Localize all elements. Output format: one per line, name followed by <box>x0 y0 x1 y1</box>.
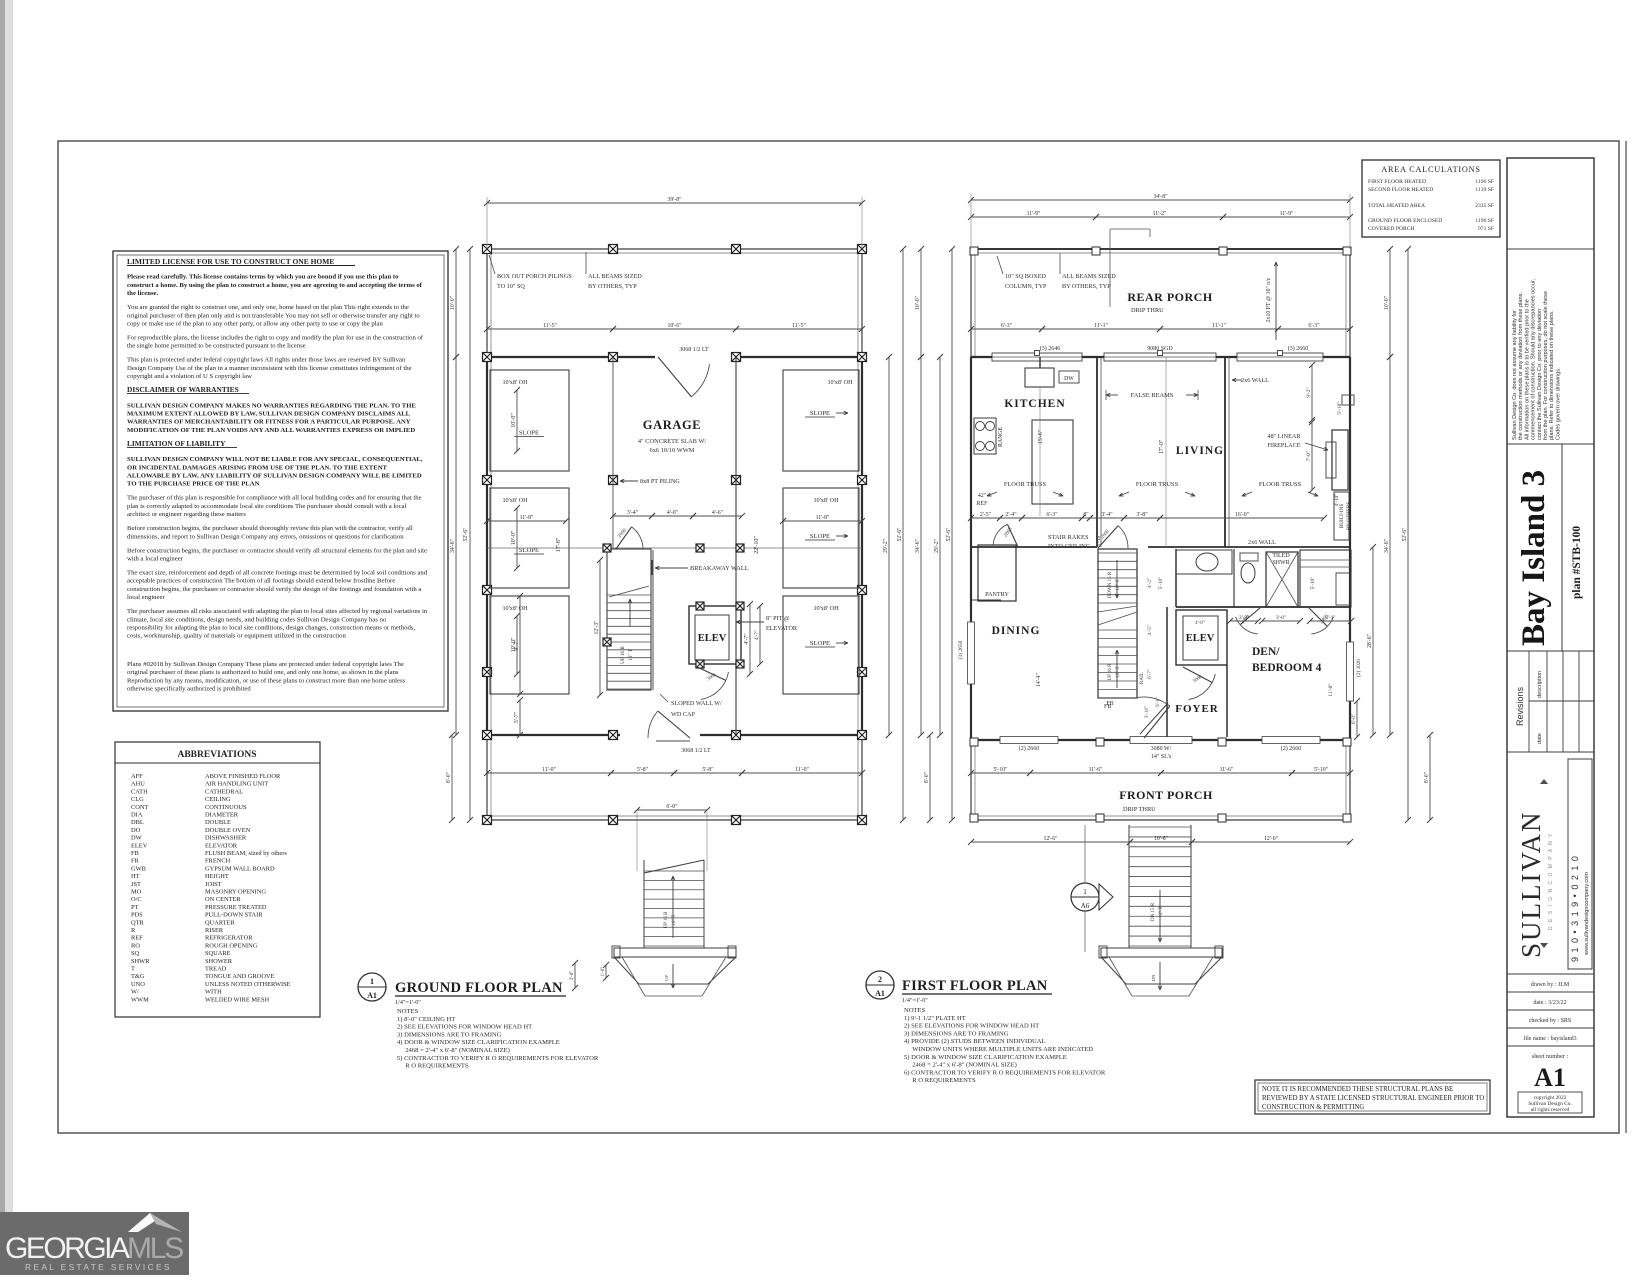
svg-text:(2) 3026: (2) 3026 <box>1355 659 1362 677</box>
svg-text:SQUARE: SQUARE <box>205 950 231 957</box>
svg-text:Please read carefully. This l: Please read carefully. This license cont… <box>127 274 399 281</box>
svg-text:1139 SF: 1139 SF <box>1475 187 1494 193</box>
svg-text:4'-10": 4'-10" <box>1334 494 1340 507</box>
svg-text:3068 1/2 LT: 3068 1/2 LT <box>681 748 711 754</box>
svg-text:10'x8' OH: 10'x8' OH <box>827 379 853 386</box>
svg-text:MAXIMUM EXTENT ALLOWED BY LAW,: MAXIMUM EXTENT ALLOWED BY LAW, SULLIVAN … <box>127 411 411 418</box>
svg-text:8": 8" <box>1083 512 1088 518</box>
svg-text:6'-7": 6'-7" <box>1147 669 1153 679</box>
svg-text:Revisions: Revisions <box>1515 686 1525 726</box>
svg-text:SQ: SQ <box>131 950 140 957</box>
svg-text:Reproduction by any means, mod: Reproduction by any means, modification,… <box>127 677 406 684</box>
svg-text:2468 = 2'-4" x 6'-8" (NOMINAL: 2468 = 2'-4" x 6'-8" (NOMINAL SIZE) <box>397 1047 510 1054</box>
svg-text:AREA CALCULATIONS: AREA CALCULATIONS <box>1381 165 1480 174</box>
svg-text:CEILING: CEILING <box>205 796 231 803</box>
svg-text:original purchaser of then pla: original purchaser of then plan only and… <box>127 312 420 319</box>
svg-text:10'x8' OH: 10'x8' OH <box>502 497 528 504</box>
svg-text:GARAGE: GARAGE <box>643 418 701 432</box>
svg-text:WELDED WIRE MESH: WELDED WIRE MESH <box>205 996 270 1003</box>
svg-text:WD CAP: WD CAP <box>671 711 695 718</box>
svg-text:3068 1/2 LT: 3068 1/2 LT <box>679 347 709 353</box>
svg-text:responsibility for adapting th: responsibility for adapting the plan to … <box>127 625 415 632</box>
svg-text:ABOVE FINISHED FLOOR: ABOVE FINISHED FLOOR <box>205 773 281 780</box>
svg-text:3'-8": 3'-8" <box>1136 512 1147 518</box>
svg-text:2: 2 <box>878 975 882 984</box>
svg-text:FLUSH BEAM, sized by others: FLUSH BEAM, sized by others <box>205 850 287 857</box>
svg-text:11'-6": 11'-6" <box>1220 767 1234 773</box>
svg-text:All information on these plans: All information on these plans is to be … <box>1524 299 1530 440</box>
svg-text:CONSTRUCTION & PERMITTING: CONSTRUCTION & PERMITTING <box>1262 1104 1364 1111</box>
svg-text:11'-0": 11'-0" <box>795 767 809 773</box>
svg-text:34'-8": 34'-8" <box>1153 194 1167 200</box>
svg-text:17'-0": 17'-0" <box>1159 439 1165 454</box>
svg-text:8x8 PT PILING: 8x8 PT PILING <box>640 478 680 485</box>
svg-text:8'-0": 8'-0" <box>1424 772 1430 783</box>
svg-text:date: date <box>1537 733 1543 744</box>
svg-text:CONT: CONT <box>131 804 148 811</box>
svg-text:CATHEDRAL: CATHEDRAL <box>205 788 243 795</box>
svg-text:10'x8' OH: 10'x8' OH <box>813 497 839 504</box>
svg-text:12'-3": 12'-3" <box>594 620 600 634</box>
svg-text:GYPSUM WALL BOARD: GYPSUM WALL BOARD <box>205 865 275 872</box>
svg-text:(3) 2660: (3) 2660 <box>1288 345 1309 352</box>
svg-text:10" T: 10" T <box>1116 579 1121 590</box>
svg-text:GWB: GWB <box>131 865 146 872</box>
svg-text:10'-0": 10'-0" <box>450 296 456 310</box>
svg-text:DW: DW <box>1064 376 1074 382</box>
svg-text:RO: RO <box>131 942 140 949</box>
svg-text:SULLIVAN DESIGN COMPANY WILL N: SULLIVAN DESIGN COMPANY WILL NOT BE LIAB… <box>127 456 423 463</box>
svg-text:SECOND FLOOR HEATED: SECOND FLOOR HEATED <box>1368 187 1433 193</box>
svg-text:15'-6": 15'-6" <box>1038 430 1044 444</box>
svg-text:4'-6": 4'-6" <box>712 510 723 516</box>
svg-text:HEIGHT: HEIGHT <box>205 873 229 880</box>
svg-text:Before construction begins, th: Before construction begins, the purchase… <box>127 525 413 532</box>
svg-text:WINDOW UNITS WHERE MULTIPLE UN: WINDOW UNITS WHERE MULTIPLE UNITS ARE IN… <box>904 1046 1093 1053</box>
svg-text:RAIL: RAIL <box>1139 672 1145 684</box>
svg-text:1: 1 <box>1083 888 1087 896</box>
svg-text:11'-6": 11'-6" <box>1089 767 1103 773</box>
svg-text:REAL ESTATE SERVICES: REAL ESTATE SERVICES <box>25 1262 172 1272</box>
svg-text:R O REQUIREMENTS: R O REQUIREMENTS <box>397 1063 469 1070</box>
svg-text:1) 8'-0" CEILING HT: 1) 8'-0" CEILING HT <box>397 1016 455 1023</box>
svg-text:Sullivan Design Co. does not a: Sullivan Design Co. does not assume any … <box>1512 310 1518 440</box>
svg-text:11'-1": 11'-1" <box>1094 323 1108 329</box>
svg-text:52'-6": 52'-6" <box>1402 527 1408 541</box>
svg-text:2468 = 2'-4" x 6'-8" (NOMINAL: 2468 = 2'-4" x 6'-8" (NOMINAL SIZE) <box>904 1062 1017 1069</box>
svg-text:STAIR RAKES: STAIR RAKES <box>1048 534 1089 541</box>
svg-text:WITH: WITH <box>205 989 222 996</box>
svg-text:MLS: MLS <box>127 1232 183 1265</box>
svg-text:9080 SGD: 9080 SGD <box>1147 346 1173 352</box>
svg-text:11'-8": 11'-8" <box>520 515 534 521</box>
svg-text:6'-0": 6'-0" <box>1351 714 1357 724</box>
svg-text:28'-6": 28'-6" <box>1367 634 1373 648</box>
svg-text:local engineer: local engineer <box>127 594 165 601</box>
svg-text:copy or make use of the plan t: copy or make use of the plan to any othe… <box>127 321 383 328</box>
svg-text:10" T: 10" T <box>628 648 634 661</box>
svg-text:29'-2": 29'-2" <box>934 539 940 553</box>
svg-text:LIMITED LICENSE FOR USE TO CON: LIMITED LICENSE FOR USE TO CONSTRUCT ONE… <box>127 257 334 266</box>
svg-text:the construction methods or an: the construction methods or any deviatio… <box>1518 292 1524 440</box>
svg-text:WWM: WWM <box>131 996 149 1003</box>
svg-text:16'-0": 16'-0" <box>1235 512 1249 518</box>
svg-text:DRIP THRU: DRIP THRU <box>1131 307 1164 314</box>
svg-text:plans. Refer to dimensions ind: plans. Refer to dimensions indicated on … <box>1549 310 1555 440</box>
svg-text:description: description <box>1537 671 1543 698</box>
svg-text:GROUND FLOOR PLAN: GROUND FLOOR PLAN <box>395 980 563 996</box>
svg-text:PANTRY: PANTRY <box>985 591 1009 598</box>
svg-text:FALSE BEAMS: FALSE BEAMS <box>1131 392 1174 399</box>
svg-text:O/C: O/C <box>131 896 142 903</box>
svg-text:8'-0": 8'-0" <box>446 772 452 783</box>
svg-text:11'-2": 11'-2" <box>1153 211 1167 217</box>
svg-text:FR: FR <box>131 858 140 865</box>
svg-text:2'-4": 2'-4" <box>1005 512 1016 518</box>
svg-text:NOTE IT IS RECOMMENDED THESE: NOTE IT IS RECOMMENDED THESE STRUCTURAL … <box>1262 1086 1453 1093</box>
svg-text:9'-2": 9'-2" <box>1306 387 1312 397</box>
svg-text:17'-8": 17'-8" <box>556 537 562 552</box>
svg-text:5'-8": 5'-8" <box>637 767 648 773</box>
svg-text:You are granted the right to c: You are granted the right to construct o… <box>127 304 409 311</box>
svg-text:MO: MO <box>131 889 142 896</box>
svg-text:6'-0": 6'-0" <box>666 804 677 810</box>
svg-text:3'-3": 3'-3" <box>1239 615 1249 621</box>
svg-text:BEDROOM 4: BEDROOM 4 <box>1252 662 1322 674</box>
svg-text:SLOPE: SLOPE <box>810 410 830 417</box>
svg-text:SHWR: SHWR <box>131 958 150 965</box>
svg-text:1196 SF: 1196 SF <box>1475 179 1494 185</box>
svg-text:DOUBLE: DOUBLE <box>205 819 231 826</box>
svg-text:34'-6": 34'-6" <box>450 539 456 553</box>
svg-text:3) DIMENSIONS ARE TO FRAMING: 3) DIMENSIONS ARE TO FRAMING <box>904 1030 1009 1037</box>
svg-text:8'-0": 8'-0" <box>924 772 930 783</box>
svg-text:39'-8": 39'-8" <box>667 197 681 203</box>
svg-text:D E S I G N C O M P A N Y: D E S I G N C O M P A N Y <box>1548 832 1554 930</box>
svg-text:BREAKAWAY WALL: BREAKAWAY WALL <box>690 565 749 572</box>
svg-text:11'-9": 11'-9" <box>1280 211 1294 217</box>
svg-text:9'-7": 9'-7" <box>514 639 520 650</box>
svg-text:PULL-DOWN STAIR: PULL-DOWN STAIR <box>205 912 263 919</box>
svg-text:JOIST: JOIST <box>205 881 222 888</box>
svg-text:TONGUE AND GROOVE: TONGUE AND GROOVE <box>205 973 275 980</box>
svg-text:DISCLAIMER OF WARRANTIES: DISCLAIMER OF WARRANTIES <box>127 385 239 394</box>
svg-text:3'-0": 3'-0" <box>1276 615 1286 621</box>
svg-text:ALL BEAMS SIZED: ALL BEAMS SIZED <box>1062 273 1116 280</box>
svg-text:971 SF: 971 SF <box>1478 226 1494 232</box>
svg-text:SHWR: SHWR <box>1272 560 1289 566</box>
svg-text:plan #STB-100: plan #STB-100 <box>1571 526 1583 599</box>
svg-text:NOTES: NOTES <box>904 1007 926 1014</box>
svg-text:5'-1": 5'-1" <box>1326 615 1336 621</box>
svg-text:SULLIVAN: SULLIVAN <box>1516 810 1546 958</box>
svg-text:FRONT PORCH: FRONT PORCH <box>1119 788 1213 802</box>
svg-text:ROUGH OPENING: ROUGH OPENING <box>205 942 258 949</box>
svg-text:Plans #02018 by Sullivan Desi: Plans #02018 by Sullivan Design Company … <box>127 661 404 668</box>
svg-text:FIRST FLOOR HEATED: FIRST FLOOR HEATED <box>1368 179 1426 185</box>
svg-text:ELEVATOR: ELEVATOR <box>205 842 238 849</box>
svg-text:10'-0": 10'-0" <box>1384 296 1390 310</box>
svg-text:1/4"=1'-0": 1/4"=1'-0" <box>395 999 421 1006</box>
svg-text:10'-0": 10'-0" <box>915 296 921 310</box>
svg-text:2'-5": 2'-5" <box>980 512 991 518</box>
svg-text:FOYER: FOYER <box>1175 703 1219 715</box>
svg-text:REAR PORCH: REAR PORCH <box>1127 290 1212 304</box>
svg-text:4) PROVIDE (2) STUDS BETWEEN I: 4) PROVIDE (2) STUDS BETWEEN INDIVIDUAL <box>904 1038 1046 1045</box>
svg-text:date : 3/23/22: date : 3/23/22 <box>1534 1000 1567 1006</box>
svg-text:R: R <box>131 927 136 934</box>
svg-text:Design Company Use of the pl: Design Company Use of the plan in a mann… <box>127 365 412 372</box>
svg-text:MASONRY OPENING: MASONRY OPENING <box>205 889 266 896</box>
svg-text:10" T: 10" T <box>672 914 677 925</box>
svg-text:11'-9": 11'-9" <box>1027 211 1041 217</box>
svg-text:FRENCH: FRENCH <box>205 858 231 865</box>
svg-text:costs, workmanship, quality of: costs, workmanship, quality of materials… <box>127 633 346 640</box>
svg-text:6) CONTRACTOR TO VERIFY R O R: 6) CONTRACTOR TO VERIFY R O REQUIREMENTS… <box>904 1069 1106 1076</box>
svg-text:NOTES: NOTES <box>397 1008 419 1015</box>
svg-text:UNO: UNO <box>131 981 145 988</box>
svg-text:architect or engineer regardin: architect or engineer regarding these ma… <box>127 511 246 518</box>
svg-text:1196 SF: 1196 SF <box>1475 218 1494 224</box>
svg-text:6'-3": 6'-3" <box>1308 323 1319 329</box>
svg-text:7'-0": 7'-0" <box>1306 451 1312 461</box>
svg-text:(2) 2660: (2) 2660 <box>1281 745 1302 752</box>
svg-text:AIR HANDLING UNIT: AIR HANDLING UNIT <box>205 781 268 788</box>
svg-text:10'-6": 10'-6" <box>667 323 681 329</box>
svg-text:3'-4": 3'-4" <box>627 510 638 516</box>
svg-text:SLOPE: SLOPE <box>519 430 539 437</box>
svg-text:1'-0": 1'-0" <box>601 967 606 977</box>
svg-text:5'-10": 5'-10" <box>993 767 1007 773</box>
svg-text:BUILT-INS: BUILT-INS <box>1339 504 1345 529</box>
svg-text:11'-8": 11'-8" <box>816 515 830 521</box>
svg-text:ELEV: ELEV <box>131 842 148 849</box>
svg-text:10'-8": 10'-8" <box>1154 836 1168 842</box>
svg-text:TO 10" SQ: TO 10" SQ <box>497 283 525 290</box>
svg-text:29'-2": 29'-2" <box>883 539 889 553</box>
svg-text:from the plan. For constructio: from the plan. For construction purposes… <box>1543 291 1549 440</box>
svg-text:WARRANTIES OF MERCHANTABILITY: WARRANTIES OF MERCHANTABILITY OR FITNESS… <box>127 419 411 426</box>
svg-text:sheet number :: sheet number : <box>1532 1053 1569 1060</box>
svg-text:8" PIT @: 8" PIT @ <box>766 615 790 622</box>
svg-text:SLOPED WALL W/: SLOPED WALL W/ <box>671 700 722 707</box>
svg-text:11'-8": 11'-8" <box>1328 683 1334 696</box>
svg-text:2) SEE ELEVATIONS FOR WINDOW H: 2) SEE ELEVATIONS FOR WINDOW HEAD HT <box>904 1023 1039 1030</box>
svg-text:DN: DN <box>1151 974 1156 981</box>
svg-text:1: 1 <box>370 977 374 986</box>
svg-text:6'-3": 6'-3" <box>1001 323 1012 329</box>
svg-text:4'-7": 4'-7" <box>754 630 760 640</box>
svg-text:REVIEWED BY A STATE LICENSED S: REVIEWED BY A STATE LICENSED STRUCTURAL … <box>1262 1095 1484 1102</box>
svg-text:BY OTHERS: BY OTHERS <box>1346 502 1352 531</box>
svg-text:11" T: 11" T <box>1159 906 1164 917</box>
svg-text:drawn by : JLM: drawn by : JLM <box>1531 982 1570 988</box>
svg-text:3'-10": 3'-10" <box>1145 706 1150 718</box>
svg-text:4'-7": 4'-7" <box>744 633 750 644</box>
svg-text:dimensions, and report to Sull: dimensions, and report to Sullivan Desig… <box>127 533 404 540</box>
svg-text:FB: FB <box>131 850 139 857</box>
svg-text:LIVING: LIVING <box>1176 445 1224 457</box>
svg-text:6x6 10/10 WWM: 6x6 10/10 WWM <box>650 447 695 454</box>
svg-text:11'-5": 11'-5" <box>792 323 806 329</box>
svg-text:52'-6": 52'-6" <box>897 527 903 541</box>
svg-text:DW: DW <box>131 835 143 842</box>
svg-text:2335 SF: 2335 SF <box>1475 203 1494 209</box>
svg-text:42": 42" <box>978 493 986 499</box>
svg-text:GROUND FLOOR ENCLOSED: GROUND FLOOR ENCLOSED <box>1368 218 1442 224</box>
svg-text:DOWN 15 R: DOWN 15 R <box>1108 571 1113 598</box>
svg-text:contact the Sullivan Design Co: contact the Sullivan Design Co. prior to… <box>1537 309 1543 440</box>
svg-text:34'-6": 34'-6" <box>915 539 921 553</box>
svg-text:PT: PT <box>131 904 139 911</box>
svg-text:UNLESS NOTED OTHERWISE: UNLESS NOTED OTHERWISE <box>205 981 291 988</box>
svg-text:34'-6": 34'-6" <box>1384 539 1390 553</box>
svg-text:AHU: AHU <box>131 781 145 788</box>
svg-text:COLUMN, TYP: COLUMN, TYP <box>1005 283 1047 290</box>
svg-text:3) DIMENSIONS ARE TO FRAMING: 3) DIMENSIONS ARE TO FRAMING <box>397 1031 502 1038</box>
svg-text:TO THE PURCHASE PRICE OF THE P: TO THE PURCHASE PRICE OF THE PLAN <box>127 481 260 488</box>
svg-text:10" SQ BOXED: 10" SQ BOXED <box>1005 273 1047 280</box>
svg-text:R O REQUIREMENTS: R O REQUIREMENTS <box>904 1077 976 1084</box>
svg-text:2) SEE ELEVATIONS FOR WINDOW H: 2) SEE ELEVATIONS FOR WINDOW HEAD HT <box>397 1024 532 1031</box>
svg-text:2x6 WALL: 2x6 WALL <box>1241 377 1269 384</box>
svg-text:REF: REF <box>131 935 143 942</box>
svg-text:4'-0": 4'-0" <box>667 510 678 516</box>
svg-text:FLOOR TRUSS: FLOOR TRUSS <box>1259 481 1302 488</box>
svg-text:A1: A1 <box>1534 1063 1566 1092</box>
svg-text:SULLIVAN DESIGN COMPANY MAKES: SULLIVAN DESIGN COMPANY MAKES NO WARRANT… <box>127 402 416 409</box>
svg-text:copyright and a violation of U: copyright and a violation of U S copyrig… <box>127 373 252 380</box>
svg-text:4'-0": 4'-0" <box>1195 620 1205 626</box>
svg-text:UP 16 R: UP 16 R <box>1108 663 1113 681</box>
svg-text:BY OTHERS, TYP: BY OTHERS, TYP <box>588 283 637 290</box>
svg-text:UP 16 R: UP 16 R <box>664 911 669 929</box>
svg-text:SLOPE: SLOPE <box>810 533 830 540</box>
svg-text:FLOOR TRUSS: FLOOR TRUSS <box>1136 481 1179 488</box>
svg-text:4) DOOR & WINDOW SIZE CLARIFIC: 4) DOOR & WINDOW SIZE CLARIFICATION EXAM… <box>397 1039 560 1046</box>
svg-text:HT: HT <box>131 873 140 880</box>
svg-text:plan is correctly adapted to a: plan is correctly adapted to accommodate… <box>127 503 407 510</box>
svg-text:INTO CEILING: INTO CEILING <box>1048 543 1091 550</box>
svg-text:22'-10": 22'-10" <box>754 536 760 554</box>
svg-text:10" T: 10" T <box>1116 666 1121 677</box>
svg-text:5'-10": 5'-10" <box>1314 767 1328 773</box>
svg-text:11'-1": 11'-1" <box>1212 323 1226 329</box>
svg-text:construct a home. By using the: construct a home. By using the plan to c… <box>127 282 423 289</box>
svg-text:The purchaser of this plan is: The purchaser of this plan is responsibl… <box>127 495 422 502</box>
svg-text:5) DOOR & WINDOW SIZE CLARIFIC: 5) DOOR & WINDOW SIZE CLARIFICATION EXAM… <box>904 1054 1067 1061</box>
svg-text:BY OTHERS, TYP: BY OTHERS, TYP <box>1062 283 1111 290</box>
svg-text:14'-4": 14'-4" <box>1036 673 1042 687</box>
svg-text:TREAD: TREAD <box>205 966 227 973</box>
svg-text:DO: DO <box>131 827 141 834</box>
svg-text:ALLOWABLE BY LAW, ANY LIABILIT: ALLOWABLE BY LAW, ANY LIABILITY OF SULLI… <box>127 473 422 480</box>
svg-text:48" LINEAR: 48" LINEAR <box>1268 433 1302 440</box>
svg-text:52'-6": 52'-6" <box>946 527 952 541</box>
svg-text:all rights reserved: all rights reserved <box>1531 1107 1570 1113</box>
svg-text:otherwise specifically authori: otherwise specifically authorized is pro… <box>127 686 251 693</box>
svg-text:with a local engineer: with a local engineer <box>127 556 184 563</box>
svg-text:For reproducible plans, the li: For reproducible plans, the license incl… <box>127 335 424 342</box>
svg-text:3'-0": 3'-0" <box>569 971 575 981</box>
svg-text:original purchaser of these pl: original purchaser of these plans is aut… <box>127 669 399 676</box>
svg-text:the license.: the license. <box>127 290 159 297</box>
svg-text:ALL BEAMS SIZED: ALL BEAMS SIZED <box>588 273 642 280</box>
svg-text:TILED: TILED <box>1272 553 1290 559</box>
svg-text:1/4"=1'-0": 1/4"=1'-0" <box>902 997 928 1004</box>
svg-text:QUARTER: QUARTER <box>205 919 236 926</box>
svg-text:A6: A6 <box>1081 902 1090 910</box>
svg-text:DBL: DBL <box>131 819 144 826</box>
svg-text:DN 15 R: DN 15 R <box>1151 902 1156 921</box>
svg-text:10'x8' OH: 10'x8' OH <box>813 605 839 612</box>
svg-text:ABBREVIATIONS: ABBREVIATIONS <box>177 750 256 760</box>
svg-text:DISHWASHER: DISHWASHER <box>205 835 247 842</box>
svg-text:5'-10": 5'-10" <box>1310 577 1316 590</box>
svg-text:PRESSURE TREATED: PRESSURE TREATED <box>205 904 267 911</box>
svg-text:DOUBLE OVEN: DOUBLE OVEN <box>205 827 251 834</box>
svg-text:www.sullivandesigncompany.com: www.sullivandesigncompany.com <box>1584 872 1590 956</box>
svg-text:2x6 WALL: 2x6 WALL <box>1248 539 1276 546</box>
svg-text:REF: REF <box>977 501 988 507</box>
svg-text:CONTINUOUS: CONTINUOUS <box>205 804 247 811</box>
svg-text:DIA: DIA <box>131 812 143 819</box>
svg-text:5'-10": 5'-10" <box>1337 401 1343 414</box>
svg-text:ELEV: ELEV <box>1186 633 1215 644</box>
svg-text:construction begins, the purch: construction begins, the purchaser or co… <box>127 586 421 593</box>
svg-text:UP 16 R: UP 16 R <box>620 646 626 664</box>
svg-text:9 1 0 • 3 1 9 • 0 2 1 0: 9 1 0 • 3 1 9 • 0 2 1 0 <box>1570 855 1580 962</box>
svg-text:12'-6": 12'-6" <box>1043 836 1057 842</box>
svg-text:T: T <box>131 966 135 973</box>
svg-text:DIAMETER: DIAMETER <box>205 812 239 819</box>
svg-text:COVERED PORCH: COVERED PORCH <box>1368 226 1414 232</box>
svg-text:file name : bayisland3: file name : bayisland3 <box>1523 1035 1576 1042</box>
svg-text:Codes govern over drawings.: Codes govern over drawings. <box>1555 367 1561 440</box>
svg-text:ELEV: ELEV <box>698 633 727 644</box>
svg-text:A1: A1 <box>367 991 377 1000</box>
svg-text:acceptable practices of constr: acceptable practices of construction The… <box>127 578 395 585</box>
svg-text:FLOOR TRUSS: FLOOR TRUSS <box>1004 481 1047 488</box>
svg-text:CLG: CLG <box>131 796 144 803</box>
svg-text:commencement of construction.: commencement of construction. Should any… <box>1531 278 1537 440</box>
svg-text:climate, local site conditions: climate, local site conditions, design n… <box>127 616 387 623</box>
svg-text:TOTAL HEATED AREA: TOTAL HEATED AREA <box>1368 203 1425 209</box>
svg-text:T&G: T&G <box>131 973 145 980</box>
svg-text:JST: JST <box>131 881 141 888</box>
svg-text:CATH: CATH <box>131 788 148 795</box>
svg-text:5) CONTRACTOR TO VERIFY R O R: 5) CONTRACTOR TO VERIFY R O REQUIREMENTS… <box>397 1055 599 1062</box>
svg-text:FIREPLACE: FIREPLACE <box>1267 442 1300 449</box>
svg-text:the single home permitted to b: the single home permitted to be construc… <box>127 343 306 350</box>
svg-text:RISER: RISER <box>205 927 224 934</box>
svg-text:ELEVATOR: ELEVATOR <box>766 625 798 632</box>
svg-text:The exact size, reinforcement: The exact size, reinforcement and depth … <box>127 570 428 577</box>
svg-text:(3) 2650: (3) 2650 <box>957 640 964 659</box>
svg-text:The purchaser assumes all risk: The purchaser assumes all risks associat… <box>127 608 428 615</box>
svg-text:5'-10": 5'-10" <box>1158 577 1164 590</box>
svg-text:52'-6": 52'-6" <box>463 527 469 541</box>
svg-text:4'-2": 4'-2" <box>1147 578 1153 588</box>
svg-text:FIRST FLOOR PLAN: FIRST FLOOR PLAN <box>902 978 1048 994</box>
svg-text:AFF: AFF <box>131 773 143 780</box>
svg-text:This plan is protected under f: This plan is protected under federal cop… <box>127 357 406 364</box>
svg-text:Bay Island 3: Bay Island 3 <box>1516 470 1552 646</box>
svg-text:11'-0": 11'-0" <box>542 767 556 773</box>
svg-text:1) 9'-1 1/2" PLATE HT: 1) 9'-1 1/2" PLATE HT <box>904 1015 966 1022</box>
svg-text:5'-7": 5'-7" <box>514 712 520 723</box>
svg-text:SLOPE: SLOPE <box>810 640 830 647</box>
